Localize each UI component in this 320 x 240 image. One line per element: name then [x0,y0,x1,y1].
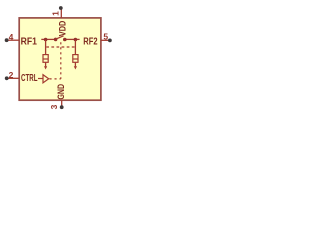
svg-text:RF1: RF1 [21,37,38,48]
switch SW1 lever [56,36,64,39]
shunt element E1 bottom lead [45,62,47,66]
svg-text:GND: GND [56,84,67,100]
wire RF bus left segment [41,38,56,40]
pin 1 VDD wire [60,10,62,18]
wire RF bus right segment [64,38,79,40]
background [0,0,120,120]
control dashed link vertical [60,42,62,79]
junction node C (switch pole right) [63,38,67,42]
shunt element E1 box stripe [43,58,48,60]
pin 4 RF1 end dot [5,38,9,42]
symbol body U1 [19,18,101,100]
shunt element E2 box [73,55,78,63]
control dashed link horizontal lower [50,78,61,80]
pin 2 CTRL wire [8,77,19,79]
shunt element E1 arrowhead [44,66,47,69]
pin 1 VDD end dot [59,6,63,10]
shunt element E2 top lead [74,40,76,55]
junction node D [74,38,78,42]
svg-text:CTRL: CTRL [21,73,38,84]
pin 3 GND wire [61,100,63,105]
shunt element E2 bottom lead [74,62,76,66]
svg-text:5: 5 [103,32,108,42]
pin 2 CTRL end dot [5,76,9,80]
pin 5 RF2 wire [101,39,109,41]
junction node B (switch pole left) [54,38,58,42]
pin 3 GND end dot [60,105,64,109]
svg-text:4: 4 [9,32,14,42]
CTRL wire to buffer [38,78,43,80]
svg-text:2: 2 [9,70,14,80]
pin 5 RF2 end dot [108,39,112,43]
svg-text:VDD: VDD [57,21,68,37]
svg-text:3: 3 [49,104,59,109]
svg-text:1: 1 [50,11,60,16]
control dashed link horizontal upper [46,46,75,48]
shunt element E2 arrowhead [74,66,77,69]
shunt element E1 box [43,55,48,63]
svg-text:RF2: RF2 [83,37,98,48]
pin 4 RF1 wire [8,39,19,41]
buffer U2 triangle [43,75,49,83]
shunt element E2 box stripe [73,58,78,60]
junction node A [44,38,48,42]
shunt element E1 top lead [45,40,47,55]
